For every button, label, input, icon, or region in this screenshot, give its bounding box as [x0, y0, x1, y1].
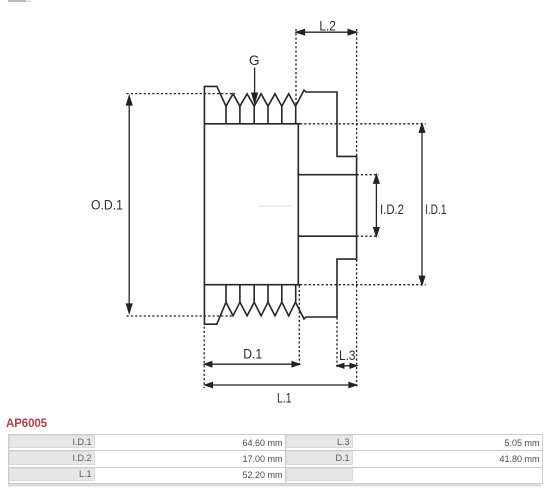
pulley outline: [204, 86, 356, 324]
svg-text:L.2: L.2: [319, 19, 336, 34]
I.D.1 dimension: [421, 126, 423, 284]
right data table: [285, 434, 543, 484]
groove side wall right stub top: [295, 106, 297, 124]
I.D.1 extension top: [300, 123, 426, 125]
L.1 extension right lower: [356, 260, 358, 389]
svg-text:G: G: [249, 53, 260, 68]
next-row shadow strip: [8, 484, 541, 486]
svg-text:O.D.1: O.D.1: [91, 198, 123, 213]
groove root line top: [204, 123, 300, 125]
groove side wall right stub bottom: [295, 285, 297, 303]
groove root line bottom: [204, 284, 300, 286]
groove side walls top: [226, 106, 282, 124]
D.1 extension right: [298, 286, 300, 367]
O.D.1 extension top: [127, 93, 236, 95]
G leader arrow: [254, 68, 256, 95]
I.D.2 extension bottom: [357, 235, 379, 237]
part code: [6, 418, 47, 430]
L.3 extension left: [336, 318, 338, 369]
L.1 dimension: [206, 384, 355, 386]
faint centerline remnant: [258, 205, 293, 207]
O.D.1 dimension: [128, 103, 130, 306]
bore top line: [298, 174, 357, 176]
svg-text:L.3: L.3: [339, 348, 356, 363]
svg-text:D.1: D.1: [243, 346, 262, 361]
L.3 dimension: [339, 365, 356, 367]
svg-text:I.D.1: I.D.1: [425, 202, 447, 217]
body right edge: [297, 124, 299, 285]
D.1 dimension: [206, 363, 299, 365]
I.D.2 dimension: [375, 177, 377, 235]
I.D.1 extension bottom: [300, 284, 426, 286]
L.2 dimension: [298, 31, 356, 33]
D.1 extension left / L.1 left: [203, 327, 205, 389]
groove side walls bottom: [226, 285, 282, 303]
I.D.2 extension top: [357, 174, 379, 176]
top-left logo remnant: [8, 0, 26, 2]
O.D.1 extension bottom: [127, 315, 234, 317]
svg-text:L.1: L.1: [277, 391, 292, 406]
left data table: [8, 434, 286, 484]
bore bottom line: [298, 235, 357, 237]
svg-text:I.D.2: I.D.2: [380, 202, 404, 217]
L.2 extension left: [295, 29, 297, 106]
L.2/L.3/L.1 extension right upper: [356, 29, 358, 156]
